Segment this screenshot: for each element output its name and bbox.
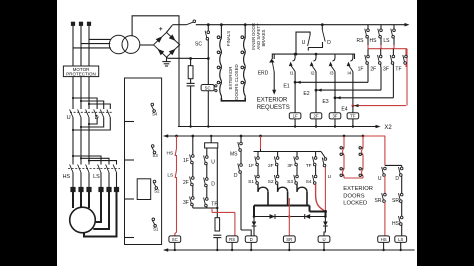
svg-text:+: + — [159, 26, 163, 33]
svg-text:HS: HS — [167, 151, 174, 157]
svg-text:1F: 1F — [358, 67, 364, 73]
svg-text:2F: 2F — [268, 163, 274, 169]
svg-text:3F: 3F — [287, 163, 293, 169]
svg-text:S1: S1 — [248, 179, 254, 185]
svg-text:LS: LS — [383, 38, 390, 44]
svg-text:I1: I1 — [290, 71, 294, 77]
svg-text:RS: RS — [357, 38, 365, 44]
svg-text:EXTERIOR: EXTERIOR — [228, 66, 233, 90]
svg-text:D: D — [95, 115, 99, 121]
svg-text:SC: SC — [195, 42, 202, 48]
svg-text:RS: RS — [229, 237, 235, 242]
svg-text:E3: E3 — [322, 99, 328, 105]
svg-text:2F: 2F — [370, 67, 376, 73]
svg-text:U: U — [378, 176, 382, 182]
svg-text:LS: LS — [398, 237, 403, 242]
svg-text:LS: LS — [167, 173, 173, 179]
svg-text:D: D — [250, 237, 253, 242]
svg-text:S4: S4 — [306, 179, 312, 185]
svg-text:EXTERIOR: EXTERIOR — [257, 98, 288, 104]
svg-text:S3: S3 — [152, 153, 158, 158]
svg-text:D: D — [327, 40, 331, 46]
svg-text:U: U — [322, 237, 325, 242]
svg-text:I3: I3 — [329, 71, 333, 77]
svg-text:TF: TF — [211, 202, 217, 208]
svg-text:DOORS: DOORS — [343, 193, 364, 199]
svg-text:DOORS CLOSED: DOORS CLOSED — [234, 64, 239, 99]
svg-text:1F: 1F — [183, 158, 189, 164]
svg-text:1F: 1F — [248, 163, 254, 169]
svg-text:HS: HS — [392, 221, 400, 227]
svg-text:SC: SC — [205, 86, 211, 91]
svg-text:TF: TF — [306, 163, 312, 169]
svg-text:SR: SR — [392, 198, 399, 204]
svg-text:HS: HS — [63, 174, 71, 180]
svg-text:D: D — [211, 182, 215, 188]
svg-text:LOCKED: LOCKED — [343, 201, 367, 207]
svg-text:HS: HS — [370, 38, 378, 44]
svg-text:S2: S2 — [154, 189, 160, 194]
svg-text:FINALS: FINALS — [226, 31, 231, 46]
svg-text:U: U — [302, 40, 306, 46]
svg-text:3F: 3F — [383, 67, 389, 73]
svg-text:X2: X2 — [384, 125, 392, 131]
svg-text:D: D — [234, 173, 238, 179]
svg-text:2F: 2F — [313, 114, 318, 119]
svg-text:U: U — [328, 174, 332, 180]
svg-text:S3: S3 — [287, 179, 293, 185]
svg-text:SR: SR — [286, 237, 292, 242]
svg-text:2F: 2F — [183, 180, 189, 186]
svg-text:REQUESTS: REQUESTS — [257, 105, 290, 111]
svg-text:TF: TF — [350, 114, 356, 119]
svg-text:3F: 3F — [183, 200, 189, 206]
svg-text:PROTECTION: PROTECTION — [66, 71, 96, 76]
svg-text:D: D — [395, 176, 399, 182]
svg-text:ERD: ERD — [258, 70, 269, 76]
svg-text:LS: LS — [93, 174, 100, 180]
svg-text:U: U — [211, 160, 215, 166]
svg-text:1F: 1F — [293, 114, 298, 119]
svg-text:TF: TF — [395, 67, 401, 73]
svg-text:I4: I4 — [347, 71, 351, 77]
svg-text:3F: 3F — [332, 114, 337, 119]
svg-text:SR: SR — [375, 198, 382, 204]
svg-text:E4: E4 — [341, 107, 347, 113]
svg-text:EXTERIOR: EXTERIOR — [343, 186, 373, 192]
svg-text:E2: E2 — [303, 91, 309, 97]
svg-text:S1: S1 — [153, 226, 159, 231]
svg-text:E1: E1 — [283, 84, 289, 90]
svg-text:S4: S4 — [152, 112, 158, 117]
svg-text:S2: S2 — [268, 179, 274, 185]
svg-text:MS: MS — [230, 152, 238, 158]
svg-text:U: U — [67, 115, 71, 121]
svg-text:BRAKES: BRAKES — [261, 29, 266, 46]
svg-text:HS: HS — [381, 237, 387, 242]
svg-text:I2: I2 — [310, 71, 314, 77]
svg-text:SC: SC — [172, 237, 178, 242]
